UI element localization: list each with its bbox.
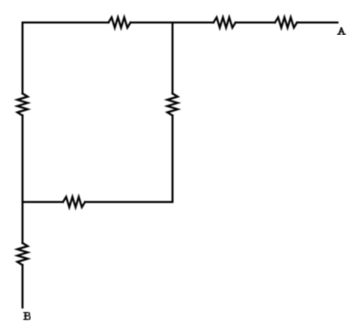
resistor R4 (left branch, upper) [17, 94, 27, 116]
wire: top horizontal from R1 to junction node J1 [131, 22, 173, 24]
resistor R6 (middle branch) [167, 94, 177, 116]
node B label [23, 312, 30, 320]
wire: left vertical from R5 down to terminal B [22, 265, 24, 308]
wire: bottom horizontal from node BL to resistor R7 [23, 201, 64, 203]
wire: middle vertical from R6 down to node BR [172, 116, 174, 203]
wire: top horizontal from R3 to terminal A [297, 22, 338, 24]
wire: left vertical from R4 down to node BL [22, 116, 24, 203]
resistor R2 (top wire, middle right) [214, 17, 236, 27]
wire: top horizontal between R2 and R3 [236, 22, 276, 24]
wire: left vertical from node BL down to resistor R5 [22, 202, 24, 243]
wire: top horizontal from junction J1 to resistor R2 [173, 22, 214, 24]
resistor R7 (bottom wire) [63, 197, 85, 207]
resistor R5 (left branch, lower) [17, 243, 27, 265]
wire: bottom horizontal from R7 to node BR [85, 201, 173, 203]
resistor R1 (top wire, left of junction) [109, 17, 131, 27]
node A label [337, 28, 346, 35]
wire: top-left horizontal segment from node TL to resistor R1 [23, 22, 109, 24]
wire: middle vertical from junction J1 down to resistor R6 [172, 23, 174, 94]
resistor R3 (top wire, rightmost) [275, 17, 297, 27]
wire: left vertical from node TL down to resistor R4 [22, 23, 24, 94]
